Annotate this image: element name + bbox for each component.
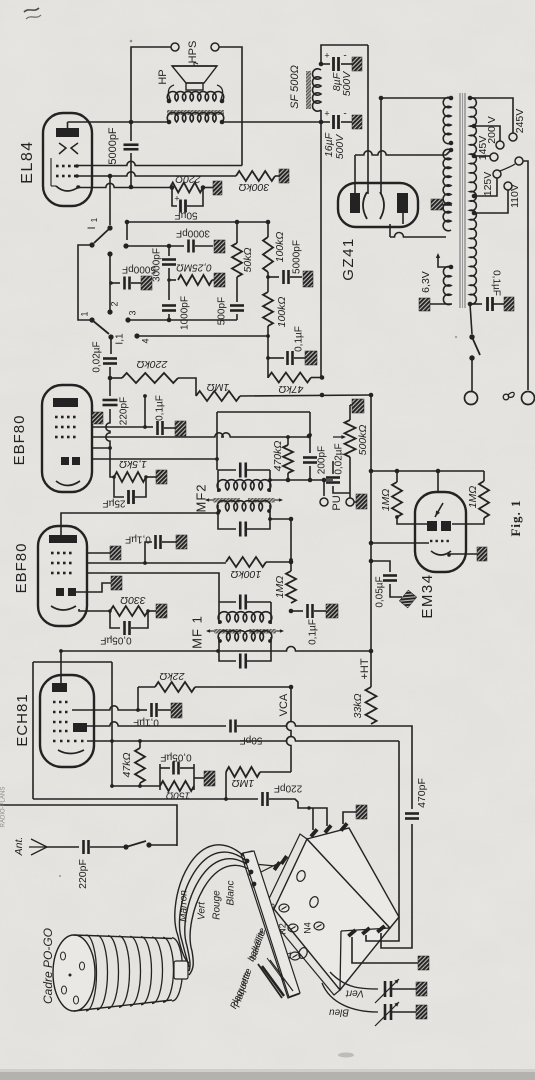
svg-text:33kΩ: 33kΩ	[352, 694, 364, 719]
svg-text:1MΩ: 1MΩ	[232, 777, 255, 789]
capacitor 3000pF2	[168, 246, 170, 256]
svg-text:25µF: 25µF	[103, 497, 126, 508]
wire ECH g4	[72, 706, 138, 710]
smudge	[338, 1053, 354, 1058]
wire 220k to 1M	[178, 378, 196, 396]
svg-text:2: 2	[109, 301, 119, 306]
ground EBF2 g3	[110, 546, 121, 560]
wire pin 427	[92, 426, 145, 428]
svg-text:100kΩ: 100kΩ	[274, 232, 286, 263]
wire EBF2 g3	[87, 552, 110, 554]
wire ECH g osc	[87, 722, 226, 726]
svg-text:220pF: 220pF	[77, 859, 89, 889]
terminal HPS	[171, 43, 179, 51]
node sw c4	[134, 333, 139, 338]
hole 2	[308, 895, 319, 908]
ground 1.5k	[156, 470, 167, 484]
plug selector	[493, 170, 501, 178]
capacitor 8uF	[321, 63, 330, 65]
svg-text:220Ω: 220Ω	[175, 173, 202, 185]
resistor 1M g	[196, 391, 240, 401]
wire sw mid	[109, 254, 111, 312]
speaker HP	[172, 66, 217, 83]
capacitor 470pF	[411, 806, 413, 809]
wire lugb3	[381, 824, 412, 948]
wire 1M osc l	[225, 772, 227, 799]
wire ECH frame	[33, 661, 112, 663]
wire GZ41 plate2	[380, 98, 382, 194]
wire 33k out	[367, 726, 412, 806]
wire bus mid	[290, 519, 292, 571]
wire plq link1	[254, 864, 275, 866]
resistor 1M osc	[226, 767, 260, 777]
screw N2	[288, 924, 298, 932]
wire bleu trim	[322, 983, 378, 1012]
wire EM34 target	[437, 471, 439, 492]
ground 3000pF	[214, 240, 225, 253]
transformer MF1 sec coil	[218, 631, 272, 641]
ground block	[356, 805, 367, 819]
node B+ join	[320, 393, 324, 397]
svg-text:50µF: 50µF	[175, 209, 198, 220]
svg-text:245V: 245V	[514, 109, 526, 134]
core PWR	[459, 93, 461, 308]
sticks	[262, 966, 284, 996]
wire avc cap	[268, 357, 284, 359]
capacitor 5000pF3	[282, 270, 285, 284]
ground 0.1uF mid	[326, 604, 338, 618]
capacitor 16uF	[321, 121, 330, 123]
wire tap 110V	[474, 190, 508, 213]
wire tap 245V	[470, 98, 513, 133]
resistor 0.25M	[178, 275, 212, 285]
wire spk left	[169, 99, 170, 101]
svg-text:145V: 145V	[477, 136, 489, 161]
cable marron	[175, 845, 246, 963]
svg-text:5000pF: 5000pF	[292, 240, 303, 274]
capacitor 0.05uF em	[371, 561, 390, 572]
wire 100k to bus	[266, 561, 291, 563]
plaquette bakelite	[243, 851, 300, 997]
wire EBF2 k	[79, 609, 110, 611]
svg-text:0,02µF: 0,02µF	[334, 443, 345, 474]
wire GZ41 plate1	[354, 155, 356, 193]
core OUT	[167, 110, 224, 115]
svg-text:I: I	[86, 226, 98, 229]
svg-text:470pF: 470pF	[416, 778, 428, 808]
wire anode rect	[217, 411, 310, 413]
svg-text:1,5kΩ: 1,5kΩ	[119, 458, 147, 470]
transformer OUT primary	[167, 113, 223, 122]
speaker frame	[168, 85, 174, 99]
wire 5000pF2	[111, 282, 120, 284]
ground 220R	[213, 181, 222, 195]
svg-text:125V: 125V	[482, 172, 494, 197]
svg-text:220pF: 220pF	[119, 397, 130, 425]
nub cadre	[174, 961, 188, 979]
screw N1	[290, 952, 300, 960]
svg-text:PU: PU	[331, 495, 343, 510]
svg-text:3: 3	[127, 310, 137, 315]
transformer PWR primary	[470, 98, 476, 304]
svg-text:Vert: Vert	[197, 901, 208, 920]
choke SF 500	[312, 69, 321, 111]
ground 0.1uF e2	[176, 535, 187, 549]
ground trim b	[416, 1005, 427, 1019]
resistor 50k	[236, 222, 238, 243]
resistor 33k	[366, 687, 377, 724]
svg-text:1000pF: 1000pF	[180, 296, 191, 330]
node sw mid top	[107, 251, 112, 256]
ground 0.05uF em	[399, 590, 416, 608]
wire EL84 pin y176	[78, 172, 236, 176]
capacitor 0.05uF e2	[110, 611, 120, 628]
capacitor 500pF	[236, 277, 238, 302]
wire lugb1	[352, 937, 418, 963]
wire plq link2	[257, 862, 281, 874]
svg-text:50pF: 50pF	[240, 734, 263, 745]
svg-text:Fig. 1: Fig. 1	[508, 499, 523, 536]
wire ECH g1	[87, 737, 399, 741]
capacitor 25uF	[114, 477, 124, 497]
switch ant	[123, 844, 128, 849]
resistor 1M em l	[396, 471, 398, 482]
svg-text:500pF: 500pF	[217, 297, 228, 325]
svg-text:+: +	[324, 50, 329, 60]
capacitor 1000pF	[162, 304, 176, 307]
wire EBF2 g1	[87, 562, 226, 564]
wire GZ41 fil	[367, 45, 369, 194]
svg-text:Rouge: Rouge	[212, 890, 223, 920]
wire EL84 anode	[67, 122, 69, 128]
svg-text:0,1µF: 0,1µF	[490, 270, 501, 296]
svg-text:110V: 110V	[509, 184, 521, 208]
svg-text:0,1µF: 0,1µF	[308, 619, 319, 645]
transformer MF2 sec cap	[218, 505, 236, 529]
wire sw to top	[126, 222, 128, 240]
wire B+ vertical x321	[320, 122, 322, 377]
svg-text:Blanc: Blanc	[226, 880, 237, 905]
cable rouge	[185, 859, 253, 971]
svg-text:220kΩ: 220kΩ	[137, 358, 169, 370]
ground 300k	[279, 169, 289, 183]
node SF top	[319, 62, 324, 67]
wiper 500k	[333, 436, 344, 438]
wire EL84 pin y187	[78, 183, 170, 187]
wire 63V bottom	[430, 303, 452, 305]
transformer MF1 prim cap	[219, 601, 236, 603]
wire pin 437	[92, 433, 309, 437]
capacitor 0.1uF ech	[138, 709, 147, 711]
ground 0.25M	[214, 273, 225, 287]
svg-text:47kΩ: 47kΩ	[121, 753, 133, 778]
wire ant feed	[0, 805, 177, 846]
transformer MF2 prim cap	[218, 469, 236, 471]
wire 5000pF3	[268, 276, 279, 278]
wire lug3	[343, 812, 356, 824]
trimmer vert	[384, 981, 387, 997]
svg-text:0,05µF: 0,05µF	[375, 576, 386, 607]
wire lugb2	[366, 741, 399, 941]
wire EM34 top	[371, 470, 484, 472]
ground 5000pF3	[303, 271, 313, 287]
node col169	[167, 244, 172, 249]
wire pin 448	[92, 447, 110, 449]
svg-text:SF 500Ω: SF 500Ω	[289, 65, 301, 109]
resistor 1M bus	[286, 571, 296, 603]
wire 1M em l b	[397, 517, 428, 524]
resistor 47k avc	[268, 373, 311, 383]
transformer MF1 sec cap	[219, 637, 236, 661]
transformer MF1 prim coil	[218, 612, 272, 622]
wire em bus	[370, 395, 372, 651]
transformer MF2 sec coil	[217, 501, 271, 511]
svg-text:500V: 500V	[341, 71, 353, 97]
svg-text:5000pF: 5000pF	[107, 127, 119, 165]
switch I1 bottom	[89, 317, 94, 322]
svg-text:1: 1	[79, 311, 89, 316]
ground 63V	[419, 298, 430, 311]
svg-text:3000pF: 3000pF	[152, 248, 163, 282]
svg-text:0,1µF: 0,1µF	[294, 326, 305, 352]
svg-text:22kΩ: 22kΩ	[160, 670, 186, 682]
wire GZ41 bottom	[390, 233, 446, 238]
node 100k mid	[266, 275, 270, 279]
ground EBF80a diode	[92, 412, 103, 424]
svg-text:100kΩ: 100kΩ	[231, 568, 262, 580]
terminal 110V	[504, 182, 512, 190]
resistor 150R	[160, 781, 194, 791]
tube EBF80 no1	[42, 385, 92, 492]
svg-text:MF2: MF2	[193, 484, 208, 513]
resistor 470k	[287, 437, 289, 445]
ground 0.1uF avc	[305, 351, 317, 365]
wire 0.1uF mid	[291, 610, 303, 612]
trimmer bleu	[384, 1004, 387, 1020]
symbol plug	[503, 394, 509, 400]
svg-text:0,05µF: 0,05µF	[160, 751, 191, 762]
sticks	[258, 964, 282, 998]
wire EL84 pin y166	[78, 161, 242, 165]
svg-text:MF 1: MF 1	[189, 615, 204, 649]
node bus 611	[289, 609, 294, 614]
svg-text:EL84: EL84	[19, 140, 36, 183]
wire sw4 row	[137, 326, 268, 336]
wire mains right	[523, 161, 528, 390]
svg-text:RADIO-PLANS: RADIO-PLANS	[1, 787, 7, 828]
capacitor 0.1uF avc	[286, 351, 289, 365]
resistor 220R	[170, 183, 203, 193]
wire pin 459	[92, 458, 217, 460]
wire HT row	[61, 647, 371, 651]
wire EBF2 anode	[61, 513, 218, 535]
cable blanc	[189, 865, 256, 975]
switch I1 top	[109, 176, 111, 225]
wire bus low	[290, 687, 292, 714]
potentiometer 500k	[345, 420, 356, 457]
jack PU	[323, 480, 325, 496]
wire tone top	[127, 221, 268, 223]
tube GZ41	[338, 183, 418, 227]
svg-text:0,1µF: 0,1µF	[125, 533, 151, 544]
tube EBF80 no2	[38, 526, 87, 626]
wire gnd bus	[33, 798, 258, 800]
wire frame x112	[111, 662, 113, 786]
ground 500k	[352, 399, 364, 413]
wire tap 200V	[474, 126, 500, 141]
resistor 100k a	[267, 222, 269, 237]
svg-text:-: -	[343, 109, 346, 120]
resistor 330R	[110, 606, 148, 616]
svg-text:ECH81: ECH81	[14, 693, 31, 746]
ground 5000pF2	[141, 276, 152, 290]
svg-text:1: 1	[90, 217, 99, 222]
svg-text:+: +	[324, 108, 329, 118]
wire 0.1uF t1	[144, 397, 146, 427]
wire tap 145V	[474, 155, 490, 157]
svg-text:47kΩ: 47kΩ	[279, 383, 304, 395]
core MF2	[213, 498, 240, 503]
svg-text:300kΩ: 300kΩ	[239, 181, 270, 193]
capacitor 0.1uF mains	[486, 297, 489, 311]
svg-text:Vert: Vert	[345, 987, 364, 998]
capacitor 5000pF	[130, 122, 132, 141]
node sw c1	[123, 243, 128, 248]
hole 1	[295, 869, 306, 882]
svg-text:GZ41: GZ41	[340, 237, 357, 281]
wire HV top	[381, 97, 452, 99]
ground lugb1	[418, 956, 429, 970]
wire HPS left	[131, 47, 171, 122]
resistor 100k b	[263, 292, 273, 326]
svg-text:330Ω: 330Ω	[120, 594, 146, 606]
resistor 220k	[122, 373, 178, 383]
svg-text:1MΩ: 1MΩ	[274, 576, 286, 599]
capacitor 0.1uF t1	[145, 426, 153, 428]
capacitor 50pF	[229, 720, 232, 733]
svg-text:HPS: HPS	[187, 41, 199, 64]
ground EM34 k	[477, 547, 487, 561]
svg-text:500V: 500V	[334, 134, 346, 160]
wire 1M osc r	[260, 771, 291, 773]
lugs top	[309, 828, 318, 838]
capacitor 0.05uF ech	[159, 764, 161, 790]
ground 0.1uF mains	[504, 297, 514, 311]
node sw c3	[125, 317, 130, 322]
capacitor 220pF ant	[82, 840, 85, 854]
capacitor 3000pF	[187, 240, 190, 253]
svg-text:50kΩ: 50kΩ	[242, 248, 254, 273]
screw N4	[314, 922, 324, 930]
svg-text:500kΩ: 500kΩ	[357, 425, 369, 456]
wire plate bus y122	[68, 121, 170, 123]
wire sw3 row	[128, 319, 237, 321]
tuning block	[274, 839, 390, 990]
ground trim v	[416, 982, 427, 996]
terminal mains plug1	[465, 392, 478, 405]
capacitor 0.02uF pu	[332, 461, 334, 474]
svg-text:EM34: EM34	[419, 573, 436, 618]
svg-text:Marron: Marron	[179, 890, 190, 922]
wire tap 125V	[474, 178, 497, 196]
wire 1M em r b	[452, 518, 484, 524]
tube ECH81	[40, 675, 94, 767]
switch mains	[470, 304, 472, 334]
transformer MF2 prim coil	[217, 480, 271, 490]
lugs left	[273, 861, 282, 871]
transformer PWR sec HV2	[443, 149, 451, 231]
svg-text:HP: HP	[157, 69, 169, 84]
wire 22k up	[137, 687, 139, 710]
screw N3	[279, 904, 289, 912]
wire 025M	[169, 279, 176, 281]
svg-text:EBF80: EBF80	[13, 543, 30, 594]
ground 0.1uF t1	[175, 421, 186, 436]
terminal mains plug2	[522, 392, 535, 405]
cable vert	[180, 852, 250, 967]
wire sec left	[168, 99, 170, 101]
wire k row	[112, 785, 160, 787]
capacitor 200pF	[309, 435, 311, 453]
wire 3000pF	[126, 245, 184, 247]
svg-text:Ant.: Ant.	[13, 837, 25, 857]
resistor 1.5k	[114, 472, 146, 482]
resistor 300k	[236, 171, 275, 181]
wire EM34 k	[449, 554, 477, 555]
wire avc v	[267, 336, 269, 378]
svg-text:+: +	[174, 193, 179, 203]
svg-text:EBF80: EBF80	[11, 415, 28, 466]
svg-text:0,05µF: 0,05µF	[100, 634, 131, 645]
wire 1M bus	[240, 395, 371, 396]
ground 330R	[156, 604, 167, 618]
transformer PWR sec HV1	[443, 97, 451, 143]
node 5000pF junction	[129, 120, 134, 125]
svg-text:100kΩ: 100kΩ	[276, 297, 288, 328]
capacitor 220pF g	[109, 378, 111, 396]
wire k1	[110, 448, 114, 477]
capacitor 5000pF2	[123, 277, 126, 290]
antenna Ant	[31, 839, 47, 847]
capacitor 50uF	[172, 188, 177, 207]
lugs bottom	[347, 928, 357, 937]
svg-text:Cadre PO-GO: Cadre PO-GO	[41, 928, 55, 1004]
svg-text:200pF: 200pF	[317, 446, 328, 474]
svg-text:-: -	[343, 51, 346, 62]
svg-text:3000pF: 3000pF	[176, 227, 210, 238]
wire vert trim	[330, 972, 378, 989]
capacitor 0.1uF mid	[306, 604, 309, 618]
svg-text:0,25MΩ: 0,25MΩ	[176, 261, 212, 272]
ground PWR screen	[431, 199, 443, 210]
transformer PWR sec 63	[443, 266, 451, 304]
resistor 22k	[155, 682, 195, 692]
ground 16uF	[352, 115, 362, 129]
wire lug1	[312, 808, 314, 830]
svg-text:0,02µF: 0,02µF	[92, 341, 103, 372]
wire MF2 prim right	[270, 479, 333, 481]
wire prim bottom	[470, 303, 482, 305]
ground 0.1uF ech	[171, 703, 182, 718]
wire 22k bus	[195, 686, 291, 688]
capacitor 0.1uF e2	[145, 542, 152, 563]
wire MF2 sec right	[270, 518, 291, 520]
svg-text:1MΩ: 1MΩ	[207, 381, 230, 393]
svg-text:470kΩ: 470kΩ	[272, 441, 284, 472]
corner mark	[24, 8, 39, 12]
node col169 b	[167, 318, 172, 323]
svg-text:1MΩ: 1MΩ	[380, 489, 392, 512]
